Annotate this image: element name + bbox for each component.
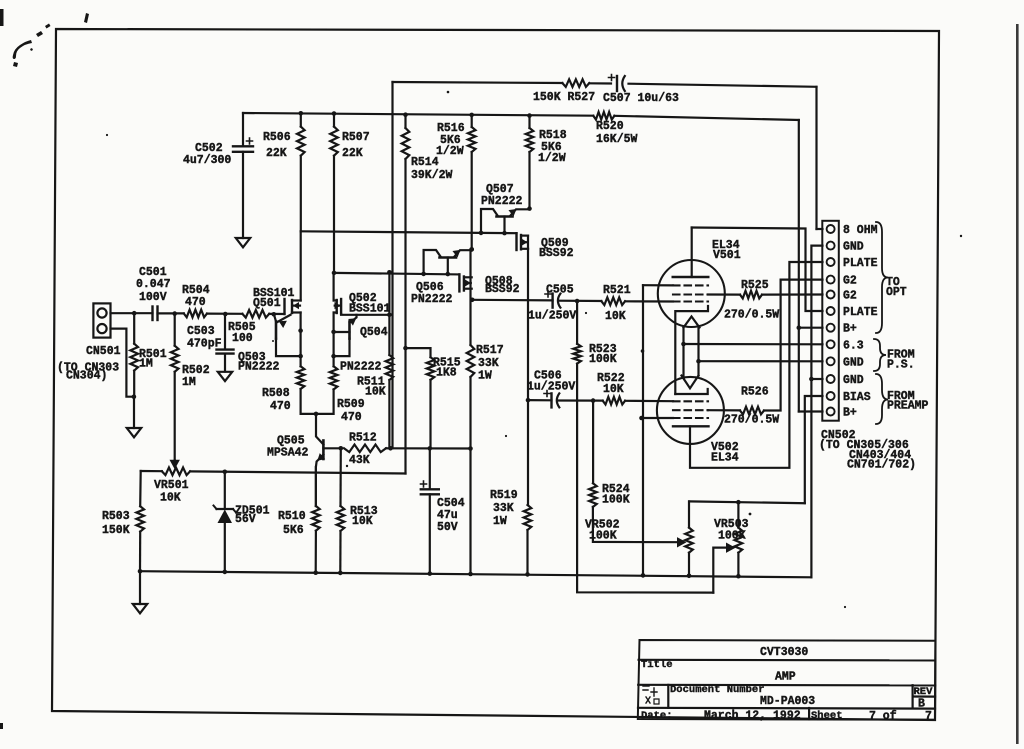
label Date [641,710,673,722]
label CN502 [819,429,916,472]
label R522 [597,372,625,396]
svg-text:100K: 100K [718,530,746,543]
label Title [641,659,673,671]
transistor Q504 [334,315,357,356]
wire CN501 pin2 jog [111,329,134,397]
svg-text:10K: 10K [365,386,386,399]
label Q507 [481,183,523,208]
svg-text:Q504: Q504 [360,326,388,339]
junction R518 top [527,113,532,118]
svg-text:R514: R514 [411,156,439,169]
label C505 [528,284,576,323]
svg-text:R506: R506 [263,131,291,144]
junction GND pin10 [809,377,814,382]
tube V502 envelope [657,377,724,444]
wire V502 g2 out [708,409,740,411]
svg-text:R509: R509 [337,398,365,411]
label Q504 type [340,361,382,374]
label R506 [263,131,291,160]
ground for C502 [236,238,250,247]
svg-text:BSS92: BSS92 [485,283,520,296]
label date value [704,710,801,723]
label R525 [724,279,779,322]
label C503 [187,325,222,351]
svg-text:33K: 33K [478,357,499,370]
scan edge artifact right [1016,24,1019,744]
junction emitter join node [314,412,319,417]
wire C506 to R522 [557,399,602,401]
svg-text:R525: R525 [741,279,769,292]
resistor R517 [467,249,475,574]
label R523 [589,343,617,366]
junction heater gnd [696,359,701,364]
wire bias feed row [141,471,406,474]
label VR503 [714,518,749,543]
wire R525 to G2 pin [762,293,823,295]
label R510 [278,510,306,537]
capacitor C506 [528,391,559,408]
wire 8OHM pin [817,228,823,230]
junction V502 g2 tie [639,416,644,421]
wire heater gnd row [699,360,823,362]
resistor R502 [171,314,179,461]
heater lines [684,328,699,376]
label R521 [603,284,631,323]
wire R511 upper link [388,272,390,315]
junction R506 top [299,111,304,116]
svg-text:OPT: OPT [886,286,907,299]
potentiometer VR501 [162,468,190,476]
svg-text:43K: 43K [349,454,370,467]
svg-text:C507 10u/63: C507 10u/63 [603,92,679,105]
svg-text:PLATE: PLATE [843,257,878,270]
label C504 [437,497,465,534]
svg-text:10K: 10K [605,310,626,323]
svg-text:R508: R508 [262,387,290,400]
svg-text:B+: B+ [843,407,857,420]
transistor Q505 [316,414,341,506]
wire R522 to V502 grid [625,400,673,403]
label R513 [350,505,378,528]
junction R515 link [403,346,408,351]
label R524 [602,483,630,507]
svg-text:PREAMP: PREAMP [887,400,929,413]
resistor R525 [740,291,762,299]
transistor Q501 BSS101 [285,231,301,330]
svg-text:1M: 1M [139,358,153,371]
svg-text:6.3: 6.3 [843,339,864,352]
tube V502 grid g1 [673,400,708,402]
wire B+ column right to CN502 [798,120,800,412]
brace TO OPT [876,222,888,333]
svg-text:100V: 100V [139,291,167,304]
svg-text:7: 7 [925,710,932,723]
svg-text:CN304): CN304) [66,370,107,383]
wire feedback rail top (8 OHM to R527/C507) [393,82,817,87]
junction R511 top [387,313,392,318]
wire 6.3 row [684,343,823,345]
connector CN502 [822,221,839,421]
svg-text:REV: REV [914,686,934,698]
wire Q508 to C505 [472,299,552,302]
svg-text:22K: 22K [342,147,363,160]
wire GND pin2 jog [811,246,822,578]
junction gnd rail G2col [641,573,646,578]
svg-text:G2: G2 [843,290,857,303]
resistor R501 [130,313,138,397]
ground symbol main [133,571,147,613]
svg-text:GND: GND [843,241,864,254]
label Q504 [360,326,388,339]
junction Q501 source / Q503 node [298,328,303,333]
label R519 [490,489,518,528]
resistor R519 [524,400,532,574]
tube V502 cathode [675,389,707,394]
svg-text:CN701/702): CN701/702) [847,459,916,472]
capacitor C503 [217,314,234,372]
transistor Q502 BSS101 [334,273,390,332]
junction R512 right node [388,446,393,451]
tube V501 envelope [658,260,725,327]
label VR501 [154,479,189,505]
svg-text:10K: 10K [352,515,373,528]
brace FROM P.S. [874,339,886,371]
wire V501 plate to PLATE pin [692,228,823,312]
label TO OPT [886,276,907,299]
svg-text:EL34: EL34 [711,452,739,465]
svg-text:39K/2W: 39K/2W [411,169,453,182]
svg-text:100K: 100K [589,530,617,543]
svg-text:Q501: Q501 [253,297,281,310]
junction ZD501 top [223,470,228,475]
svg-text:Document Number: Document Number [670,684,765,696]
transistor Q509 BSS92 [517,233,529,250]
junction C504 top node [428,446,433,451]
junction B+ pin7 [797,325,802,330]
connector CN501 [93,303,110,337]
label R518 [538,129,567,165]
junction gnd rail VR503 [736,574,741,579]
junction R505 gate/base tap [272,312,277,317]
svg-text:1K8: 1K8 [436,367,457,380]
transistor Q508 BSS92 [459,274,474,302]
resistor R508 [297,356,316,414]
junction input node [132,311,137,316]
svg-text:56V: 56V [235,513,256,526]
svg-text:270/0.5W: 270/0.5W [724,309,779,322]
resistor R512 [344,445,391,453]
label C506 [527,370,575,394]
title block frame [638,640,936,720]
title block scribbles [643,686,659,704]
resistor R504 [184,310,207,318]
svg-text:BSS92: BSS92 [539,247,574,260]
label Q509 [539,237,574,260]
label R517 [476,344,504,383]
svg-text:100: 100 [232,332,253,345]
svg-text:PN2222: PN2222 [340,361,382,374]
label R504 [182,284,210,309]
junction C505 node [575,299,580,304]
wire CN501 pin1 to input row [111,312,153,314]
wire bias rail lower [334,273,459,275]
wire R521 to V501 grid [625,300,673,302]
ground for R501 [127,428,141,437]
svg-text:1u/250V: 1u/250V [527,381,575,394]
label V501 [712,239,741,262]
svg-text:R521: R521 [603,284,631,297]
junction gnd rail VR502 [687,574,692,579]
label C507 value [603,92,679,105]
svg-text:1/2W: 1/2W [538,152,566,165]
wiper arrow VR502 [677,537,687,547]
junction R507 top [332,111,337,116]
svg-text:Date:: Date: [641,710,673,722]
dust specks [106,91,962,608]
svg-text:16K/5W: 16K/5W [596,133,638,146]
wire C505 to R521 [558,300,601,302]
svg-text:MD-PA003: MD-PA003 [760,695,815,708]
wire R526 to G2 pin [764,280,823,411]
junction Q505 base node [339,446,344,451]
svg-text:C503: C503 [187,325,215,338]
resistor R521 [601,297,625,305]
svg-text:5K6: 5K6 [283,524,304,537]
label V502 [711,441,739,465]
potentiometer VR503 [735,502,743,576]
label Q506 [411,281,453,306]
label Document Number [670,684,765,696]
resistor R526 [740,407,764,415]
label R509 [337,398,365,424]
scan smudge top-left [0,9,89,729]
label VR502 [585,519,620,543]
resistor R515 [406,348,435,448]
label FROM PREAMP [887,390,929,413]
capacitor C504 [421,448,439,573]
svg-text:B: B [918,698,925,711]
tube V501 grid g3 [673,284,708,286]
svg-text:BSS101: BSS101 [349,303,391,316]
svg-text:R507: R507 [342,131,370,144]
tube V502 plate [673,262,823,468]
ground for C503 [218,372,232,381]
junction C506 right [591,398,596,403]
wire Q502 source to Q504 loop [333,332,335,356]
resistor R507 [330,114,338,273]
label REV B [918,698,925,711]
label title CVT3030 [760,646,808,659]
zener diode ZD501 [214,472,237,572]
svg-text:G2: G2 [843,275,857,288]
wire R504 to R505 [207,313,242,315]
junction R502 top [172,311,177,316]
svg-text:GND: GND [843,374,864,387]
wire R512 row to R515/R517 [391,447,471,449]
svg-text:470: 470 [341,411,362,424]
svg-text:R512: R512 [349,432,377,445]
wire ground rail [140,571,812,577]
svg-text:R510: R510 [278,510,306,523]
resistor R527 [562,79,589,87]
junction gnd rail C504 [428,571,433,576]
label REV [914,686,934,698]
junction R511 rail tap [387,270,392,275]
capacitor C501 [153,307,158,321]
tube V502 grid g3 [673,417,708,419]
heater arrow up [684,317,700,328]
label R502 [182,364,210,389]
label R501 [139,348,167,371]
label Sheet [811,710,843,722]
svg-text:150K R527: 150K R527 [533,91,595,104]
svg-text:270/0.5W: 270/0.5W [724,414,779,427]
label Q502 [349,292,391,316]
svg-text:AMP: AMP [775,671,796,684]
transistor Q507 [479,206,532,235]
svg-text:Title: Title [641,659,673,671]
transistor Q506 [421,247,474,276]
svg-text:CN501: CN501 [86,345,121,358]
junction gnd rail R519 [525,572,530,577]
label Q505 [267,435,309,460]
svg-text:GND: GND [843,356,864,369]
label R515 [433,357,461,380]
svg-text:0.047: 0.047 [136,278,171,291]
svg-text:V501: V501 [713,249,741,262]
wire G2 tie column [642,285,644,575]
resistor R509 [316,356,337,414]
svg-text:R517: R517 [476,344,504,357]
svg-text:R520: R520 [596,120,624,133]
svg-text:1W: 1W [478,370,492,383]
svg-text:Sheet: Sheet [811,710,843,722]
junction Q506 emitter node [469,247,474,252]
capacitor C507 [609,75,625,92]
resistor R516 [468,115,476,250]
svg-text:33K: 33K [493,502,514,515]
junction R514 top [403,112,408,117]
resistor R503 [136,471,144,571]
svg-text:R503: R503 [102,510,130,523]
junction gnd rail R513 [338,571,343,576]
svg-text:10K: 10K [603,383,624,396]
label R527 value 150K R527 [533,91,595,104]
wire g1 feed V502 [642,417,674,419]
wire Q501 source to Q503 loop [300,331,302,357]
wire bias rail upper [301,231,517,233]
transistor Q503 [274,315,301,357]
label R512 [349,432,377,468]
svg-text:PN2222: PN2222 [411,293,453,306]
resistor R511 [386,315,394,449]
wire Q509 source column [527,249,529,400]
svg-text:50V: 50V [437,521,458,534]
wire R505 to Q501 gate [269,313,284,315]
junction rail-273 R507 [332,271,337,276]
svg-text:B+: B+ [843,323,857,336]
svg-text:22K: 22K [266,147,287,160]
potentiometer VR502 [685,501,693,575]
svg-text:150K: 150K [102,524,130,537]
junction C503 top [223,312,228,317]
junction C506 left [526,398,531,403]
label CN501 target [57,362,119,383]
junction gnd rail R517 [468,572,473,577]
svg-text:100K: 100K [602,494,630,507]
svg-text:March 12, 1992: March 12, 1992 [704,710,801,723]
svg-text:1M: 1M [182,376,196,389]
svg-text:R519: R519 [490,489,518,502]
label Q501 [253,287,295,310]
junction VR503 top [736,500,741,505]
junction Q503 loop node [298,354,303,359]
capacitor C505 [545,291,560,308]
label R508 [262,387,291,413]
label R520 [596,120,638,146]
svg-text:1/2W: 1/2W [436,145,464,158]
svg-text:4u7/300: 4u7/300 [183,154,231,167]
wiper VR503 wire [713,543,735,593]
label MD-PA003 [760,695,815,708]
brace FROM PREAMP [876,374,888,424]
junction heater 6.3 [681,342,686,347]
svg-text:MPSA42: MPSA42 [267,447,309,460]
wire C501 to R504 [158,312,184,314]
svg-text:470pF: 470pF [187,338,222,351]
label C502 [183,142,231,167]
junction Q504 base [331,330,336,335]
tube V501 plate [673,228,709,278]
junction gnd rail ZD501 [223,570,228,575]
wire feedback column left [391,82,393,448]
wire B+ pin12 stub [799,410,823,412]
svg-text:P.S.: P.S. [887,359,915,372]
wire B+ rail [243,113,799,120]
resistor R510 [312,467,320,573]
wire g3 feed V501 [643,284,673,286]
wire B+ pin7 stub [799,327,823,329]
resistor R505 [242,310,269,318]
label R526 [724,386,779,427]
label FROM P.S. [887,349,915,372]
svg-text:CVT3030: CVT3030 [760,646,808,659]
resistor R514 [402,115,410,474]
label R516 [436,122,465,158]
label AMP [775,671,796,684]
junction R501 bottom [132,394,137,399]
junction R517 node [468,446,473,451]
wire V501 g2 out [708,293,740,295]
label R514 [411,156,453,182]
svg-text:BIAS: BIAS [843,391,871,404]
svg-text:R526: R526 [741,386,769,399]
svg-text:VR501: VR501 [154,479,189,492]
svg-text:470: 470 [270,400,291,413]
svg-text:PLATE: PLATE [843,306,878,319]
wire 8 OHM column right [815,87,817,229]
junction Q504 loop node [331,354,336,359]
svg-text:7 of: 7 of [869,710,897,723]
label CN501 [86,345,121,358]
label C501 [136,266,171,304]
label R511 [357,376,386,399]
junction gnd rail R503 [138,569,143,574]
svg-text:1W: 1W [493,515,507,528]
svg-text:470: 470 [185,296,206,309]
label ZD501 [235,505,270,527]
wire BIAS pin11 [805,396,823,503]
